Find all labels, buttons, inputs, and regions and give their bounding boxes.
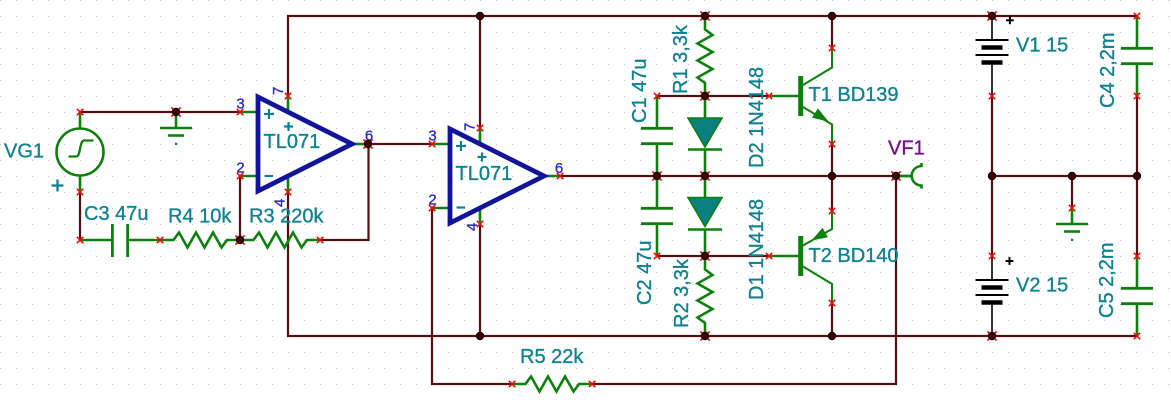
ground (input) xyxy=(160,113,192,145)
svg-text:R2 3,3k: R2 3,3k xyxy=(671,258,693,328)
wire R3 right up to U1 output xyxy=(320,144,369,240)
junction dots with terminals xyxy=(171,11,996,340)
transistor T2 BD140 xyxy=(769,211,832,303)
svg-text:R4 10k: R4 10k xyxy=(168,206,232,228)
svg-text:R3 220k: R3 220k xyxy=(249,206,324,228)
pin 6 U2 xyxy=(555,160,563,177)
wire output rail y176 xyxy=(560,175,896,177)
pin 6 U1 xyxy=(365,128,373,145)
capacitor C3 xyxy=(80,224,160,257)
wire supply mid rail y176 xyxy=(992,175,1137,177)
transistor T1 BD139 xyxy=(769,48,832,144)
label C1 47u xyxy=(629,59,651,124)
label T1 BD139 xyxy=(809,84,899,106)
capacitor C5 xyxy=(1121,256,1153,336)
svg-text:C5 2,2m: C5 2,2m xyxy=(1096,242,1118,318)
capacitor C2 xyxy=(641,176,673,256)
output probe VF1 xyxy=(896,163,922,189)
label C5 2,2m xyxy=(1096,242,1118,318)
label R1 3,3k xyxy=(670,24,692,94)
pin 4 U2 xyxy=(464,223,481,231)
wire rail to ground 2 xyxy=(1071,176,1073,208)
wire T2 collector to bottom rail xyxy=(831,303,833,336)
voltage source VG1 xyxy=(52,112,104,192)
pin 7 U2 xyxy=(462,123,479,131)
label R2 3,3k xyxy=(671,258,693,328)
svg-text:VG1: VG1 xyxy=(4,141,44,163)
svg-text:7: 7 xyxy=(462,123,479,131)
label C2 47u xyxy=(634,241,656,306)
resistor R3 xyxy=(240,233,320,248)
label C4 2,2m xyxy=(1097,32,1119,108)
svg-text:D2 1N4148: D2 1N4148 xyxy=(746,67,768,168)
resistor R2 xyxy=(698,256,713,336)
label U2 TL071 xyxy=(456,163,513,185)
wire output rail to T2 emitter xyxy=(831,176,833,211)
svg-text:V2 15: V2 15 xyxy=(1016,275,1068,297)
battery V2 xyxy=(976,256,1014,336)
wire U2 pin2 down to R5 left xyxy=(432,208,512,384)
label D2 1N4148 xyxy=(746,67,768,168)
label R4 10k xyxy=(168,206,232,228)
svg-text:T1 BD139: T1 BD139 xyxy=(809,84,899,106)
label C3 47u xyxy=(84,203,149,225)
op-amp U1 TL071 xyxy=(240,96,368,192)
wire U2 pin4 to bottom rail xyxy=(479,224,481,336)
svg-text:V1 15: V1 15 xyxy=(1016,35,1068,57)
resistor R1 xyxy=(698,16,713,96)
label V2 15 xyxy=(1016,275,1068,297)
svg-text:C2 47u: C2 47u xyxy=(634,241,656,306)
svg-text:TL071: TL071 xyxy=(264,131,321,153)
pin 2 U2 xyxy=(428,192,436,209)
svg-text:C1 47u: C1 47u xyxy=(629,59,651,124)
svg-text:4: 4 xyxy=(272,199,289,207)
wire R5 right to output node xyxy=(592,176,896,384)
resistor R5 xyxy=(512,377,592,392)
ground (supply midpoint) xyxy=(1056,208,1088,241)
diode D1 xyxy=(688,176,722,256)
pin 2 U1 xyxy=(236,160,244,177)
wire U1 output to U2 pin3 xyxy=(368,143,432,145)
svg-text:7: 7 xyxy=(270,87,287,95)
label R3 220k xyxy=(249,206,324,228)
svg-text:TL071: TL071 xyxy=(456,163,513,185)
svg-text:R5 22k: R5 22k xyxy=(520,346,584,368)
op-amp U2 TL071 xyxy=(432,128,560,224)
pin 4 U1 xyxy=(272,199,289,207)
label D1 1N4148 xyxy=(746,199,768,300)
wire bottom rail (U1 pin4 to C5) xyxy=(288,192,1137,336)
svg-text:VF1: VF1 xyxy=(888,138,925,160)
wire V1 minus to rail to V2 plus xyxy=(991,96,993,256)
wire node C1/R1 to T1 base xyxy=(657,95,768,97)
capacitor C1 xyxy=(641,96,673,176)
wire C4 to C5 right column xyxy=(1136,96,1138,256)
pin 3 U2 xyxy=(428,128,436,145)
wire T1 emitter to output rail xyxy=(831,144,833,176)
battery V1 xyxy=(976,16,1014,96)
wire U2 pin7 to top rail xyxy=(479,16,481,128)
resistor R4 xyxy=(160,233,240,248)
label T2 BD140 xyxy=(809,245,899,267)
wire node C2/R2 to T2 base xyxy=(657,255,768,257)
label R5 22k xyxy=(520,346,584,368)
svg-text:D1 1N4148: D1 1N4148 xyxy=(746,199,768,300)
wire U1 pin2 down to node R4/R3 xyxy=(239,176,241,240)
wire VG1 top to U1 pin3 xyxy=(80,111,240,113)
svg-text:4: 4 xyxy=(464,223,481,231)
label VG1 xyxy=(4,141,44,163)
diode D2 xyxy=(688,96,722,176)
pin 3 U1 xyxy=(236,96,244,113)
label V1 15 xyxy=(1016,35,1068,57)
wire top rail to T1 collector xyxy=(831,16,833,48)
svg-text:C3 47u: C3 47u xyxy=(84,203,149,225)
label U1 TL071 xyxy=(264,131,321,153)
capacitor C4 xyxy=(1121,16,1153,96)
wire top rail (U1 pin7 to C4) xyxy=(288,16,1137,96)
pin 7 U1 xyxy=(270,87,287,95)
svg-text:T2 BD140: T2 BD140 xyxy=(809,245,899,267)
wire VG1 bottom to C3 xyxy=(79,192,81,240)
label VF1 xyxy=(888,138,925,160)
svg-text:R1 3,3k: R1 3,3k xyxy=(670,24,692,94)
svg-text:C4 2,2m: C4 2,2m xyxy=(1097,32,1119,108)
